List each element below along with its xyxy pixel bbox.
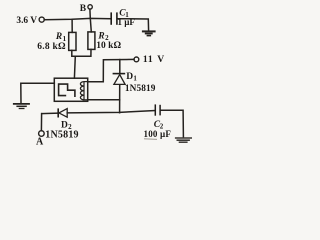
svg-text:1N5819: 1N5819 xyxy=(125,84,156,94)
svg-text:10 kΩ: 10 kΩ xyxy=(96,41,121,51)
svg-text:D: D xyxy=(126,72,133,82)
svg-text:100 µF: 100 µF xyxy=(144,129,172,139)
svg-text:A: A xyxy=(36,137,44,148)
svg-text:1N5819: 1N5819 xyxy=(45,130,78,141)
svg-text:V: V xyxy=(157,54,164,65)
svg-text:1: 1 xyxy=(133,74,137,82)
svg-text:R: R xyxy=(55,32,62,42)
svg-text:3.6 V: 3.6 V xyxy=(16,16,37,26)
svg-text:6.8 kΩ: 6.8 kΩ xyxy=(37,42,66,52)
svg-text:11: 11 xyxy=(143,54,153,65)
svg-text:R: R xyxy=(97,31,104,41)
svg-text:B: B xyxy=(80,4,87,14)
svg-text:1 µF: 1 µF xyxy=(118,17,136,27)
